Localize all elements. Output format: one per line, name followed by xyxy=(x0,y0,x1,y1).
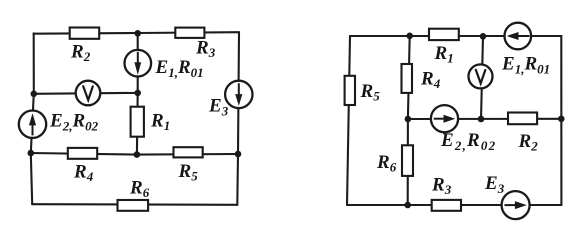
resistor R3 (right) xyxy=(432,200,461,211)
wire: right circuit voltmeter branch xyxy=(481,36,483,119)
wire: right circuit bottom xyxy=(347,204,561,206)
resistor R6 (right, vertical) xyxy=(402,145,413,176)
resistor R5 (right, vertical) xyxy=(345,76,355,105)
node: left third wire right junction xyxy=(235,151,242,158)
node: right V branch bottom junction xyxy=(478,116,485,123)
wire: left circuit top xyxy=(34,32,239,34)
arrow of E2 (left, up) xyxy=(29,113,36,135)
wire: right circuit middle vertical branch xyxy=(408,36,410,205)
wire: left circuit third horizontal xyxy=(31,153,238,155)
wire: left circuit middle vertical branch xyxy=(136,33,139,154)
wire: left circuit left vertical xyxy=(31,33,34,204)
node: left V-wire left junction xyxy=(31,91,38,98)
current source E2 (right circuit) xyxy=(431,105,458,132)
resistor R1 (left, vertical) xyxy=(131,107,144,137)
arrow of E3 (right, right-pointing) xyxy=(505,201,527,209)
arrow of E1 (left, down) xyxy=(134,52,141,75)
arrow of E3 (left, down) xyxy=(235,83,242,106)
V glyph of voltmeter (right) xyxy=(476,70,486,84)
resistor R2 (left) xyxy=(70,28,100,39)
node: left vertical / third wire junction xyxy=(28,150,35,157)
wire: left circuit bottom xyxy=(32,203,237,206)
current source E2 (left circuit) xyxy=(19,111,46,138)
node: right top of middle branch xyxy=(406,33,413,40)
V glyph of voltmeter (left) xyxy=(83,86,93,100)
wire: right circuit top xyxy=(350,35,561,37)
node: left R1 bottom junction xyxy=(134,151,141,158)
resistor R4 (left) xyxy=(68,148,97,159)
wire: left circuit right vertical xyxy=(237,32,239,205)
current source E1 (right circuit) xyxy=(505,23,532,50)
voltmeter V (right circuit) xyxy=(469,64,493,88)
voltmeter V (left circuit) xyxy=(76,81,101,106)
current source E3 (left circuit) xyxy=(225,81,252,108)
resistor R6 (left) xyxy=(118,200,149,211)
resistor R5 (left) xyxy=(174,147,203,157)
node: right middle wire right junction xyxy=(558,116,565,123)
resistor R2 (right) xyxy=(508,113,537,125)
wire: right circuit right vertical xyxy=(560,36,562,205)
resistor R4 (right, vertical) xyxy=(402,64,413,93)
node: left top of E1 branch xyxy=(134,30,141,37)
resistor R3 (left) xyxy=(175,28,204,38)
wire: right circuit middle horizontal xyxy=(408,118,561,120)
wire: right circuit left vertical xyxy=(347,36,350,205)
node: left E1 branch bottom junction xyxy=(134,90,141,97)
arrow of E1 (right, left-pointing) xyxy=(507,32,530,40)
current source E1 (left circuit) xyxy=(125,50,152,77)
current source E3 (right circuit) xyxy=(502,191,530,219)
node: right top of V branch xyxy=(480,33,487,40)
resistor R1 (right) xyxy=(429,29,459,40)
arrow of E2 (right, right-pointing) xyxy=(434,115,456,123)
wire: left circuit voltmeter branch xyxy=(34,92,138,95)
node: right middle wire left junction xyxy=(405,116,412,123)
node: right bottom of middle branch xyxy=(404,202,411,209)
